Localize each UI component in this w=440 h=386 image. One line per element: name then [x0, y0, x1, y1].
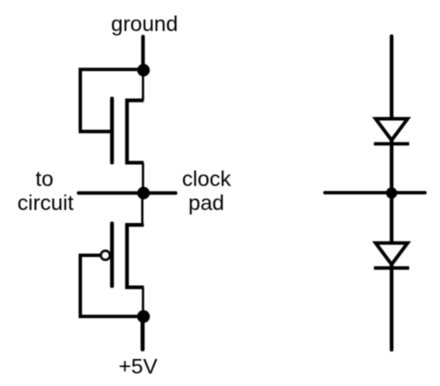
diode D2 cathode bar [374, 266, 409, 269]
horizontal wire through clock pad node [79, 191, 176, 195]
transistor Q1 channel with drain/source stubs [127, 100, 144, 162]
transistor Q2 gate bar [110, 223, 114, 286]
svg-text:+5V: +5V [119, 354, 159, 378]
wire from +5V node down to +5V label [141, 317, 145, 350]
wire from ground label down to top node [141, 37, 145, 71]
wire: gate of Q1 tied to ground node (left, down, right) [80, 69, 142, 131]
svg-text:circuit: circuit [17, 191, 73, 215]
svg-text:to: to [36, 167, 54, 191]
diode D1 triangle [376, 119, 408, 140]
transistor Q1 gate bar [110, 99, 114, 163]
wire: Q1 drain lead to ground node [142, 70, 144, 100]
wire: Q2 source lead down to +5V node [142, 287, 144, 316]
junction dot: clock pad node [137, 187, 150, 200]
wire: gate of Q2 tied to +5V node (left, down, right) [80, 255, 141, 316]
junction dot: ground node [137, 64, 150, 77]
wire: Q2 drain lead up to clock pad node [141, 193, 143, 225]
horizontal wire through right middle node [325, 191, 425, 194]
svg-text:clock: clock [182, 167, 231, 191]
transistor Q2 PMOS gate bubble [101, 251, 110, 260]
transistor Q2 channel with drain/source stubs [127, 225, 144, 287]
right circuit: vertical wire top (ground side) [390, 36, 394, 117]
svg-text:ground: ground [111, 12, 178, 36]
junction dot: +5V node [137, 310, 150, 323]
wire: Q1 source lead down to clock pad node [142, 163, 144, 193]
junction dot: right middle node [386, 187, 397, 198]
wire between D1 and middle node [390, 139, 394, 243]
diode D2 triangle [376, 243, 408, 264]
right circuit: vertical wire bottom (+5V side) [390, 264, 394, 350]
svg-text:pad: pad [188, 191, 224, 215]
diode D1 cathode bar [374, 142, 409, 145]
